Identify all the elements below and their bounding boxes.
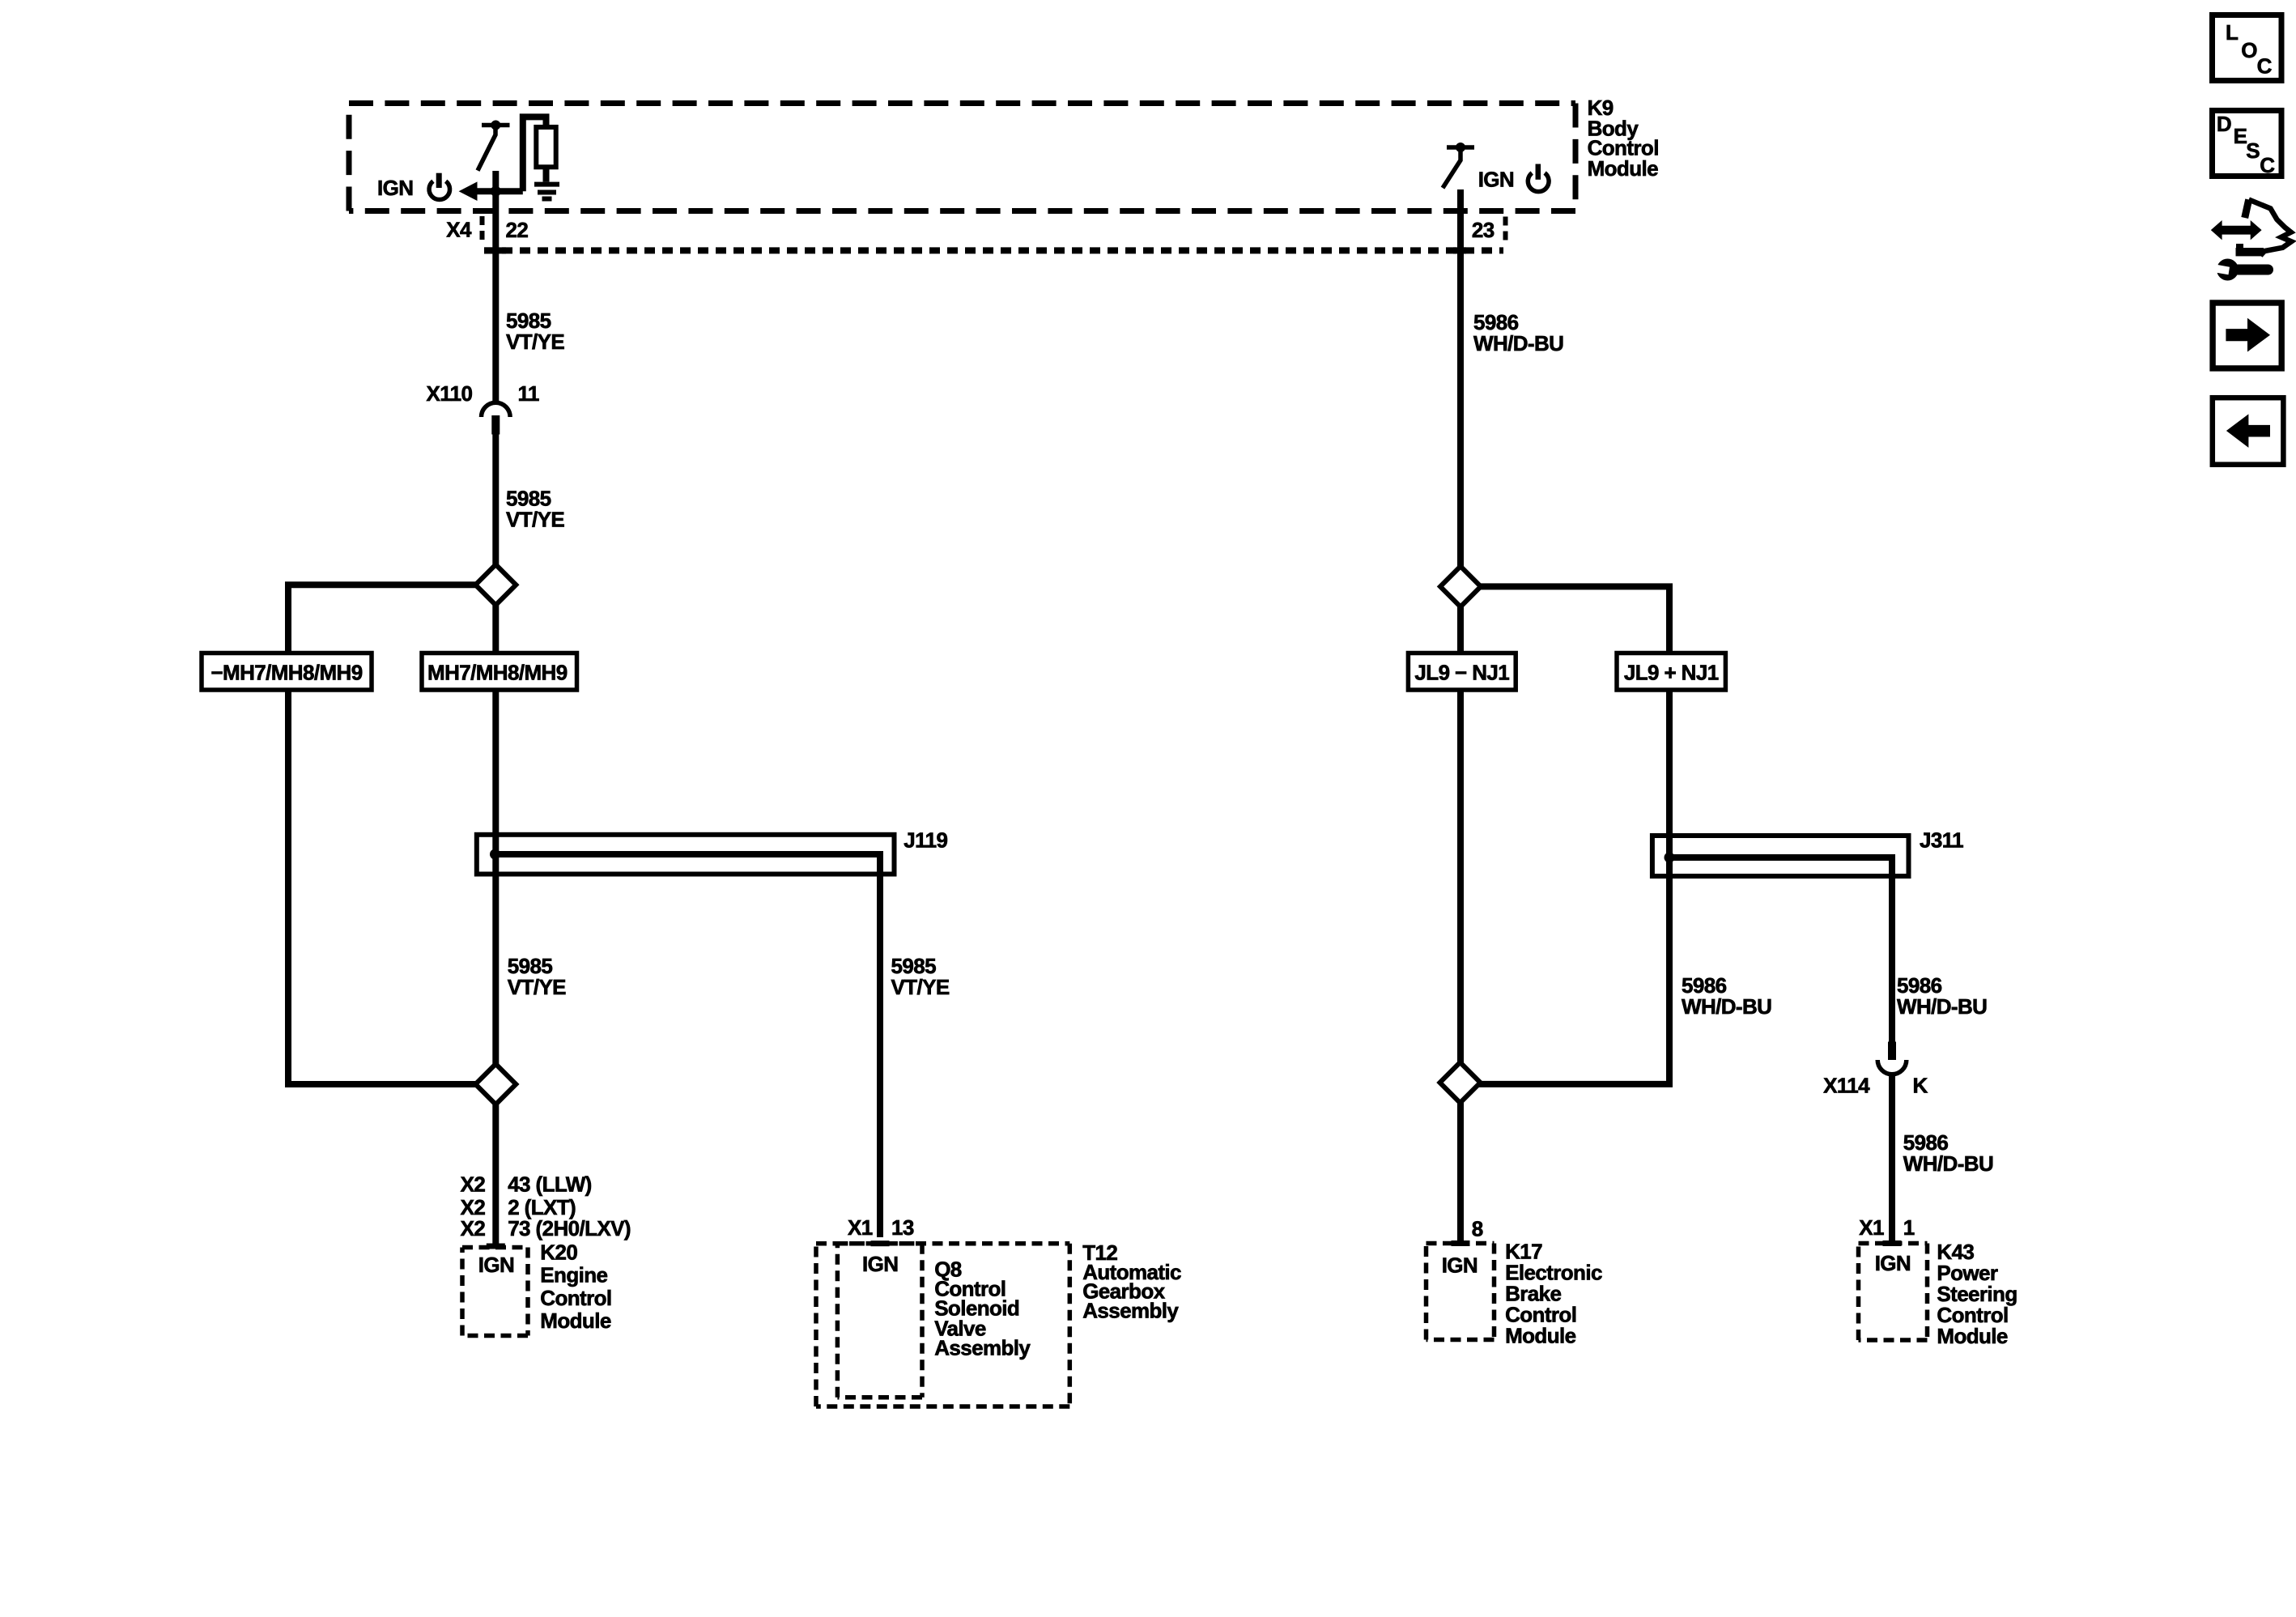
svg-text:C: C <box>2257 53 2273 78</box>
module K9 Body Control Module dashed outline <box>349 104 1575 211</box>
module K20 Engine Control Module <box>462 1244 528 1336</box>
switch ignition (right, inside K9) <box>1443 143 1474 188</box>
svg-text:IGN: IGN <box>377 176 413 200</box>
svg-text:IGN: IGN <box>478 1253 514 1277</box>
node splice diamond (upper left) <box>475 564 516 605</box>
splice pack J311 <box>1652 836 1909 1042</box>
connector X4 right bracket <box>1503 217 1508 244</box>
connector X4 left bracket <box>480 216 485 244</box>
svg-text:11: 11 <box>518 381 539 406</box>
svg-text:X110: X110 <box>427 381 473 406</box>
wire 5986 from K9 pin 23 to splice diamond <box>1457 189 1464 567</box>
wire 5986 to K17 Electronic Brake Control Module <box>1457 1101 1464 1243</box>
ground (K9 internal) <box>534 185 559 199</box>
option tag JL9 + NJ1 <box>1617 653 1725 691</box>
svg-text:IGN: IGN <box>1442 1253 1478 1278</box>
svg-text:IGN: IGN <box>1875 1251 1911 1275</box>
node splice diamond (lower right) <box>1440 1062 1481 1103</box>
power symbol (left) <box>429 173 450 200</box>
wire 5985 main run through MH7/MH8/MH9 and J119 <box>492 604 499 1067</box>
svg-text:IGN: IGN <box>1478 168 1514 192</box>
option tag JL9 - NJ1 <box>1408 653 1516 691</box>
svg-text:X114: X114 <box>1823 1074 1870 1098</box>
svg-text:22: 22 <box>506 218 529 242</box>
switch ignition (left, inside K9) <box>478 121 510 171</box>
svg-text:S: S <box>2246 138 2260 163</box>
node splice diamond (upper right) <box>1440 566 1481 606</box>
connector portion Q8 (inner dashed box) <box>837 1240 922 1398</box>
icon arrow next button <box>2213 303 2281 368</box>
wire from J311 left leg to lower splice diamond <box>1478 857 1669 1084</box>
wire 5985 to K20 Engine Control Module <box>492 1102 499 1246</box>
connector X110 pin 11 <box>482 402 511 434</box>
module K17 Electronic Brake Control Module <box>1426 1240 1495 1340</box>
wire 5985 from X110 to splice diamond <box>492 432 499 566</box>
option tag -MH7/MH8/MH9 <box>202 653 372 691</box>
svg-text:IGN: IGN <box>862 1252 898 1276</box>
svg-text:X1: X1 <box>1859 1215 1884 1240</box>
connector X114 pin K <box>1877 1042 1907 1074</box>
wire branch JL9+NJ1 to splice pack J311 <box>1480 586 1670 857</box>
icon connector service (double arrow, connector outline, wrench) <box>2211 200 2291 281</box>
svg-text:J119: J119 <box>904 828 947 853</box>
svg-text:E: E <box>2234 124 2247 148</box>
svg-text:MH7/MH8/MH9: MH7/MH8/MH9 <box>427 661 568 685</box>
power symbol (right) <box>1528 164 1549 192</box>
arrow to IGN (left) <box>459 181 478 201</box>
connector X4 dotted run <box>484 247 1503 253</box>
svg-text:K: K <box>1913 1074 1928 1098</box>
module K43 Power Steering Control Module <box>1859 1240 1928 1340</box>
wire 5985 from K9 pin 22 to connector X110 <box>492 171 499 403</box>
svg-text:D: D <box>2217 112 2231 136</box>
svg-text:23: 23 <box>1472 218 1495 242</box>
svg-text:1: 1 <box>1903 1215 1915 1240</box>
splice pack J119 <box>477 835 895 1237</box>
svg-text:−MH7/MH8/MH9: −MH7/MH8/MH9 <box>210 661 362 685</box>
wire 5986 main run through JL9-NJ1 <box>1457 606 1464 1064</box>
wire resistor to ground <box>543 167 550 181</box>
resistor (K9 internal pull-up) <box>536 127 555 167</box>
option tag MH7/MH8/MH9 <box>422 653 577 691</box>
svg-text:X4: X4 <box>446 218 472 242</box>
icon arrow back button <box>2213 398 2284 465</box>
svg-text:J311: J311 <box>1920 828 1963 852</box>
svg-text:O: O <box>2241 38 2257 62</box>
node splice diamond (lower left) <box>475 1064 516 1104</box>
node junction of IGN feed on pin-22 wire <box>491 186 501 197</box>
icon DESC button <box>2213 111 2282 177</box>
svg-text:C: C <box>2260 153 2275 177</box>
wire IGN feed arrow line <box>473 188 523 194</box>
icon LOC button <box>2213 15 2282 81</box>
svg-text:13: 13 <box>891 1215 914 1240</box>
module T12 Automatic Gearbox Assembly outline <box>816 1244 1069 1406</box>
wire bypass branch -MH7/MH8/MH9 <box>288 585 477 1084</box>
svg-text:JL9 + NJ1: JL9 + NJ1 <box>1624 661 1719 685</box>
svg-text:L: L <box>2226 20 2239 45</box>
svg-text:JL9 − NJ1: JL9 − NJ1 <box>1414 661 1509 685</box>
wire 5986 from X114 to K43 Power Steering Control Module <box>1889 1074 1895 1243</box>
svg-text:X2X2X2: X2X2X2 <box>461 1172 486 1240</box>
svg-text:8: 8 <box>1472 1217 1483 1241</box>
wire from switch to pull-up resistor <box>523 117 546 191</box>
svg-text:X1: X1 <box>848 1215 873 1240</box>
